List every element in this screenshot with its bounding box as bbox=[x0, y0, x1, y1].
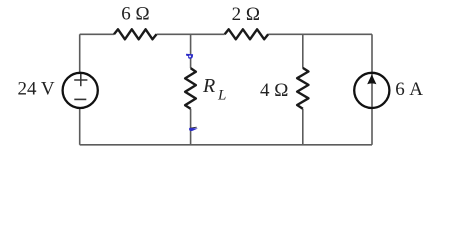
label: 24 V source value bbox=[18, 79, 55, 100]
current source I1 (circle, wire shows through) bbox=[354, 73, 389, 108]
svg-text:24 V: 24 V bbox=[18, 79, 55, 100]
resistor R1 6 ohm (top left, horizontal zigzag) bbox=[114, 29, 157, 39]
plus sign inside V1 bbox=[74, 74, 87, 86]
node a terminal marker (blue, top of RL) bbox=[186, 54, 193, 59]
wire: top segment between 6-ohm and 2-ohm resistors bbox=[157, 33, 225, 35]
resistor R2 2 ohm (top right, horizontal zigzag) bbox=[225, 29, 269, 39]
label: 6 ohm value bbox=[121, 4, 149, 25]
svg-text:6: 6 bbox=[395, 79, 405, 100]
svg-text:4 Ω: 4 Ω bbox=[260, 80, 288, 101]
wire: top-left segment from left rail to 6-ohm resistor bbox=[80, 33, 114, 35]
arrowhead of current source (points up) bbox=[367, 74, 376, 84]
svg-text:L: L bbox=[217, 87, 226, 103]
svg-text:R: R bbox=[202, 75, 215, 97]
resistor R3 4 ohm (vertical zigzag) bbox=[297, 68, 308, 109]
svg-text:6 Ω: 6 Ω bbox=[121, 4, 149, 25]
wire: top segment from 2-ohm resistor to top-right corner bbox=[268, 33, 372, 35]
wire: right rail through current source bbox=[371, 34, 373, 145]
resistor RL (middle branch, vertical zigzag) bbox=[185, 68, 196, 109]
node b terminal marker (blue, bottom of RL) bbox=[189, 127, 198, 131]
wire: middle branch lower lead (node b branch) bbox=[190, 109, 192, 145]
voltage source V1 (circle, fill white covers rail) bbox=[63, 73, 98, 108]
wire: bottom rail bbox=[80, 144, 372, 146]
wire: 4-ohm branch upper lead bbox=[302, 34, 304, 68]
wire: 4-ohm branch lower lead bbox=[302, 109, 304, 145]
svg-text:A: A bbox=[409, 79, 423, 100]
minus sign inside V1 bbox=[74, 98, 86, 100]
svg-text:2 Ω: 2 Ω bbox=[232, 4, 260, 25]
wire: middle branch upper lead (node a branch) bbox=[190, 34, 192, 68]
wire: left rail through voltage source position bbox=[79, 34, 81, 145]
label: RL designator bbox=[202, 75, 226, 103]
label: 6 A source value bbox=[395, 79, 423, 100]
label: 2 ohm value bbox=[232, 4, 260, 25]
label: 4 ohm value bbox=[260, 80, 288, 101]
